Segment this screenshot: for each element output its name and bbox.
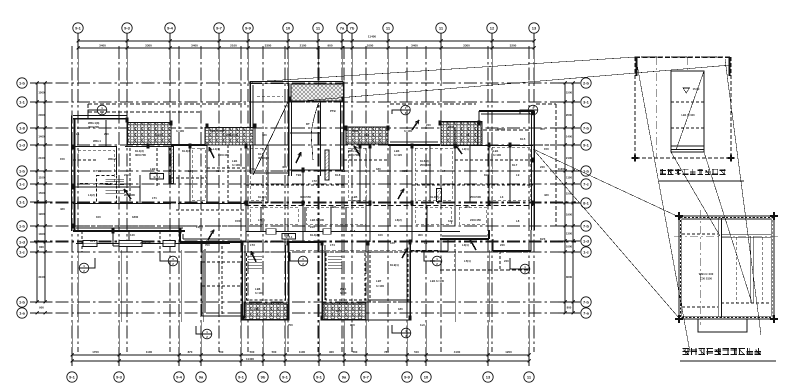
beam and slab text labels [60,109,549,327]
svg-text:1500: 1500 [38,191,45,195]
svg-text:L2(1): L2(1) [462,147,469,151]
svg-text:900: 900 [418,233,423,237]
svg-text:700: 700 [205,243,210,247]
svg-text:1500: 1500 [566,91,573,95]
svg-text:2100: 2100 [38,156,45,160]
svg-text:L7: L7 [442,169,446,173]
svg-text:9-1: 9-1 [75,26,82,31]
svg-text:800: 800 [567,306,572,310]
svg-text:120: 120 [336,309,341,313]
svg-text:1300: 1300 [566,232,573,236]
svg-text:9a: 9a [199,375,204,380]
svg-text:240: 240 [104,132,109,136]
svg-text:1-d: 1-d [19,143,26,148]
svg-text:3-1: 3-1 [583,100,590,105]
svg-text:L6(2): L6(2) [395,218,402,222]
svg-text:1400: 1400 [38,135,45,139]
svg-text:1100: 1100 [299,350,306,354]
svg-text:400: 400 [282,165,287,169]
svg-text:4400: 4400 [330,205,337,209]
svg-text:11: 11 [439,26,444,31]
svg-text:1500: 1500 [38,91,45,95]
svg-text:8-1: 8-1 [583,201,590,206]
svg-text:1: 1 [524,265,526,269]
hatched slab H2 [205,128,253,146]
svg-text:3300: 3300 [145,43,152,47]
hatched pier 3 [437,189,442,202]
svg-text:L8: L8 [516,219,520,223]
left dimension lines [30,82,52,315]
svg-text:9-7: 9-7 [216,26,223,31]
svg-text:300×550: 300×550 [300,195,311,199]
svg-text:1400: 1400 [566,135,573,139]
svg-text:LB1 h=100: LB1 h=100 [681,113,695,117]
svg-text:1x0: 1x0 [420,323,425,327]
svg-text:1-d: 1-d [19,240,26,245]
svg-text:3100: 3100 [38,275,45,279]
svg-text:WKL2: WKL2 [108,157,116,161]
svg-text:2100: 2100 [566,156,573,160]
svg-text:h=90: h=90 [340,291,347,295]
svg-text:WKL2(1): WKL2(1) [226,133,237,137]
svg-text:KL7: KL7 [512,163,518,167]
svg-text:9-9: 9-9 [245,26,252,31]
svg-text:9-1: 9-1 [282,375,289,380]
svg-text:1-c: 1-c [19,250,26,255]
caption: small roof plan title [683,348,689,355]
svg-text:KZ3: KZ3 [540,237,546,241]
svg-text:420: 420 [60,207,65,211]
hatched slab H4 [441,122,482,146]
svg-text:KL8: KL8 [335,173,341,177]
svg-text:780: 780 [384,350,389,354]
svg-text:1300: 1300 [38,232,45,236]
svg-text:b=5.1: b=5.1 [286,235,293,239]
svg-text:100: 100 [96,215,101,219]
svg-text:2: 2 [436,262,438,266]
hatched slab H7 [323,303,366,320]
svg-text:L3: L3 [188,169,192,173]
svg-text:KL4(2): KL4(2) [310,233,319,237]
hatched slab H6 [244,303,287,320]
svg-text:9-1: 9-1 [583,143,590,148]
svg-text:12: 12 [490,26,495,31]
svg-text:240×450: 240×450 [470,218,481,222]
svg-text:9-1: 9-1 [316,375,323,380]
svg-text:3400: 3400 [411,43,418,47]
svg-text:11400: 11400 [368,35,377,39]
svg-text:150: 150 [60,157,65,161]
svg-text:1-b: 1-b [19,169,26,174]
svg-text:LT2: LT2 [312,179,317,183]
svg-text:800: 800 [39,245,44,249]
svg-text:3600: 3600 [566,275,573,279]
right dimension lines [558,82,580,315]
svg-text:1100: 1100 [566,176,573,180]
svg-text:DT: DT [306,122,310,126]
svg-text:LB1: LB1 [156,133,162,137]
svg-text:1100: 1100 [38,176,45,180]
svg-text:2000: 2000 [566,113,573,117]
svg-text:700: 700 [288,323,293,327]
svg-text:1: 1 [436,257,438,261]
svg-text:250×500: 250×500 [470,195,481,199]
svg-text:11: 11 [386,26,391,31]
svg-text:L5: L5 [342,169,346,173]
svg-text:LB1 h=100: LB1 h=100 [210,129,225,133]
svg-text:11: 11 [316,26,321,31]
grid vertical axis lines [72,46,534,352]
svg-text:KL7(3): KL7(3) [258,195,267,199]
svg-text:1-b: 1-b [19,81,26,86]
hatched slab H3 [346,127,388,144]
svg-text:300: 300 [465,205,470,209]
svg-text:LT3: LT3 [250,243,255,247]
svg-text:9-4: 9-4 [167,26,174,31]
svg-text:AL1: AL1 [90,239,96,243]
svg-text:8400: 8400 [448,125,455,129]
svg-text:510: 510 [414,350,419,354]
svg-text:2: 2 [524,270,526,274]
svg-text:7a: 7a [340,26,345,31]
leader lines to detail views [252,57,761,352]
svg-text:2100: 2100 [230,43,237,47]
svg-text:180: 180 [398,307,403,311]
svg-text:500: 500 [250,350,255,354]
svg-text:h=100: h=100 [176,129,184,133]
svg-text:870: 870 [188,350,193,354]
svg-text:240: 240 [500,243,505,247]
svg-text:3200: 3200 [510,43,517,47]
svg-text:1800: 1800 [132,215,139,219]
svg-text:KZ1: KZ1 [216,169,222,173]
svg-text:240×400: 240×400 [140,241,151,245]
svg-text:L4: L4 [424,241,428,245]
svg-text:9b: 9b [261,375,266,380]
svg-text:7b: 7b [350,26,355,31]
grid horizontal axis lines [34,83,576,313]
svg-text:900: 900 [329,350,334,354]
svg-text:13: 13 [486,375,491,380]
svg-text:7-b: 7-b [583,300,590,305]
svg-text:240×400: 240×400 [218,153,229,157]
svg-text:300×700: 300×700 [135,153,146,157]
svg-text:8400: 8400 [352,129,359,133]
svg-text:2: 2 [83,269,85,273]
svg-text:h=100: h=100 [493,153,501,157]
svg-text:C30 S150: C30 S150 [700,277,712,281]
svg-text:240: 240 [540,165,545,169]
svg-text:LT1: LT1 [152,196,157,200]
top grid bubbles [73,23,539,33]
hatched slab H1 [128,123,172,145]
svg-text:L5(1): L5(1) [258,218,265,222]
svg-text:KL6: KL6 [350,229,356,233]
svg-text:h=110: h=110 [150,171,158,175]
svg-text:7-b: 7-b [583,224,590,229]
svg-text:9-7: 9-7 [363,375,370,380]
interior partition walls [73,104,556,300]
building outer walls [72,111,535,251]
svg-text:240: 240 [310,225,315,229]
right grid bubbles [581,78,591,318]
svg-text:900: 900 [327,43,332,47]
svg-text:1700: 1700 [92,350,99,354]
svg-text:h=100: h=100 [376,284,384,288]
svg-text:9-4: 9-4 [176,375,183,380]
svg-text:1000: 1000 [566,245,573,249]
svg-text:3400: 3400 [191,43,198,47]
svg-text:KZ2: KZ2 [402,169,408,173]
svg-text:900: 900 [430,259,435,263]
svg-text:1-8: 1-8 [19,126,26,131]
svg-text:300×700: 300×700 [348,153,359,157]
svg-text:LT4: LT4 [330,243,335,247]
svg-text:2: 2 [101,111,103,115]
concrete column marks [72,97,535,321]
svg-text:440: 440 [262,205,267,209]
central tower core [250,81,344,176]
svg-text:1-1: 1-1 [19,100,26,105]
svg-text:h=100: h=100 [232,163,240,167]
hatched wall pier [169,147,174,184]
svg-text:KL3(3): KL3(3) [182,149,191,153]
svg-text:2: 2 [405,111,407,115]
svg-text:b=5.1: b=5.1 [154,175,161,179]
svg-text:1: 1 [206,330,208,334]
svg-text:1-c: 1-c [583,250,590,255]
section callout circles [79,105,538,339]
svg-text:15.00: 15.00 [693,87,700,91]
svg-text:7-a: 7-a [583,311,590,316]
svg-text:L3(1): L3(1) [462,243,469,247]
top dimension lines [77,34,536,50]
svg-text:9a: 9a [342,375,347,380]
svg-text:L1(2): L1(2) [88,193,95,197]
svg-text:9-1: 9-1 [238,375,245,380]
svg-text:240: 240 [124,173,129,177]
svg-text:WKL3: WKL3 [497,127,505,131]
svg-text:L9: L9 [516,173,520,177]
svg-text:250×600: 250×600 [420,163,431,167]
svg-text:2: 2 [302,262,304,266]
svg-text:560: 560 [353,350,358,354]
svg-text:500: 500 [272,350,277,354]
svg-text:2: 2 [172,262,174,266]
svg-text:LB1: LB1 [364,133,370,137]
detail view 1 machine room [632,57,735,162]
svg-text:L2: L2 [466,133,470,137]
svg-text:1900: 1900 [38,212,45,216]
bottom grid bubbles [67,372,534,382]
svg-text:150: 150 [544,147,549,151]
svg-text:240: 240 [426,123,431,127]
svg-text:9-1: 9-1 [69,375,76,380]
svg-text:900: 900 [350,323,355,327]
svg-text:L1: L1 [76,132,80,136]
svg-text:11: 11 [527,375,532,380]
svg-text:1: 1 [172,257,174,261]
svg-text:h=120: h=120 [394,153,402,157]
svg-text:9-9: 9-9 [404,375,411,380]
svg-text:L5(1): L5(1) [464,259,471,263]
svg-text:h=110: h=110 [352,199,360,203]
svg-text:1: 1 [101,106,103,110]
svg-text:11400: 11400 [246,357,254,361]
svg-text:7-c: 7-c [583,182,590,187]
svg-text:1: 1 [405,106,407,110]
svg-text:2000: 2000 [38,113,45,117]
lower tower walls [76,240,410,320]
svg-text:1500: 1500 [235,219,242,223]
svg-text:240: 240 [504,259,509,263]
svg-text:9-3: 9-3 [124,26,131,31]
svg-text:1: 1 [83,264,85,268]
svg-text:3300: 3300 [463,43,470,47]
svg-text:KL9(1): KL9(1) [390,263,399,267]
svg-text:LB1 h=100: LB1 h=100 [430,279,445,283]
svg-text:7-b: 7-b [583,126,590,131]
svg-text:WB1 h=100: WB1 h=100 [699,272,714,276]
svg-text:10: 10 [424,375,429,380]
svg-text:2: 2 [206,335,208,339]
bottom dimension lines [71,349,531,366]
svg-text:350: 350 [540,127,545,131]
svg-text:120: 120 [448,219,453,223]
svg-text:300×700: 300×700 [88,125,99,129]
svg-text:1900: 1900 [566,213,573,217]
svg-text:h=100: h=100 [404,129,412,133]
detail view 2 small roof [674,210,779,332]
svg-text:1-b: 1-b [19,224,26,229]
svg-text:KL2(2): KL2(2) [430,195,439,199]
svg-text:TL1: TL1 [96,169,101,173]
svg-text:1-a: 1-a [19,311,26,316]
svg-text:900: 900 [39,306,44,310]
svg-text:4100: 4100 [454,350,461,354]
svg-text:100: 100 [378,233,383,237]
svg-text:120: 120 [390,241,395,245]
svg-text:1-b: 1-b [19,300,26,305]
svg-text:3300: 3300 [265,43,272,47]
left grid bubbles [17,78,27,318]
svg-text:PTB: PTB [330,109,336,113]
svg-text:9-3: 9-3 [116,375,123,380]
svg-text:420: 420 [544,193,549,197]
svg-text:240: 240 [254,307,259,311]
svg-text:1200: 1200 [505,350,512,354]
svg-text:1-1: 1-1 [19,200,26,205]
stair slope arrows [124,120,476,262]
svg-text:200×400: 200×400 [124,193,135,197]
svg-text:1: 1 [302,257,304,261]
svg-text:3400: 3400 [99,43,106,47]
svg-text:700: 700 [219,350,224,354]
dimension extension lines [72,48,534,349]
svg-text:LB4 h=100: LB4 h=100 [310,218,325,222]
svg-text:10: 10 [286,26,291,31]
svg-text:KZ1: KZ1 [484,173,490,177]
svg-text:1100: 1100 [146,350,153,354]
svg-text:L1(1): L1(1) [213,147,220,151]
svg-text:2-b: 2-b [583,81,590,86]
svg-text:L3: L3 [500,195,504,199]
svg-text:2100: 2100 [300,43,307,47]
svg-text:TB1: TB1 [296,173,302,177]
svg-text:1-d: 1-d [583,239,590,244]
svg-text:240: 240 [250,167,255,171]
svg-text:300×600: 300×600 [258,156,269,160]
svg-text:KL5: KL5 [520,137,526,141]
svg-text:11300: 11300 [558,167,566,171]
hatched pier 2 [325,150,329,180]
svg-text:120: 120 [262,133,267,137]
svg-text:1-c: 1-c [19,182,26,187]
svg-text:h=100: h=100 [255,291,263,295]
caption: machine room plan title [660,169,666,175]
svg-text:L2(1): L2(1) [196,225,203,229]
svg-text:1000: 1000 [367,43,374,47]
svg-text:WKL1: WKL1 [93,139,101,143]
svg-text:180: 180 [376,167,381,171]
svg-text:140: 140 [130,233,135,237]
svg-text:13: 13 [532,26,537,31]
svg-text:LB7: LB7 [376,279,382,283]
